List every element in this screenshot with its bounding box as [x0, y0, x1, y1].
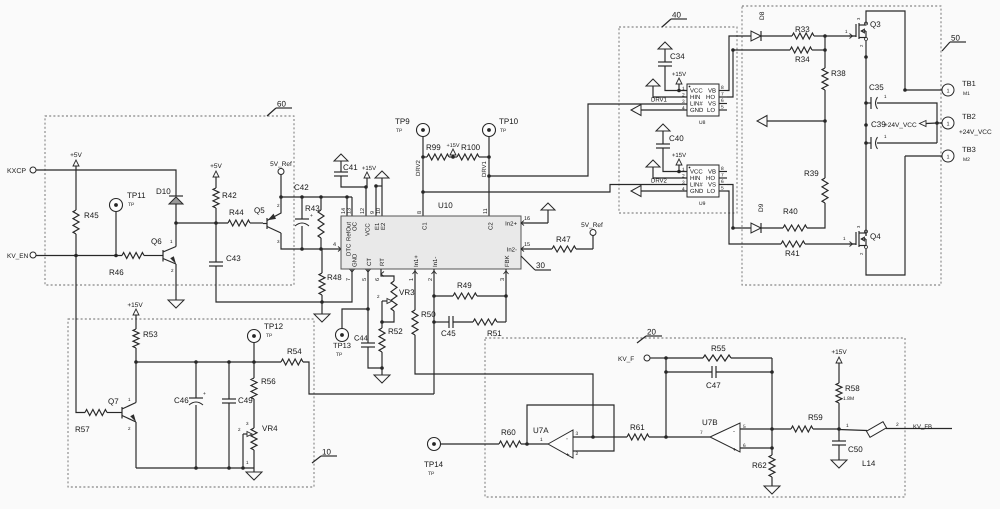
svg-text:C34: C34 — [670, 52, 685, 61]
capacitor C42 (polarized) — [301, 197, 303, 219]
resistor R59 — [772, 428, 791, 430]
wire U7A feedback loop — [527, 405, 614, 451]
svg-text:C43: C43 — [226, 254, 241, 263]
svg-text:+: + — [310, 213, 313, 219]
svg-text:6: 6 — [375, 278, 381, 281]
wire C35 right to TB bus — [877, 103, 937, 143]
resistor R33 — [761, 35, 792, 37]
wire Q3 source down — [865, 41, 867, 103]
node VR4 wiper/ground rail — [241, 466, 245, 470]
VR4 wiper arrow — [243, 433, 247, 435]
svg-text:1: 1 — [946, 89, 949, 95]
svg-text:5: 5 — [362, 278, 368, 281]
svg-text:In1+: In1+ — [413, 255, 420, 267]
svg-text:D9: D9 — [758, 203, 765, 212]
wire U7B pin6 stub — [740, 447, 772, 449]
testpoint TP13 — [336, 329, 349, 342]
testpoint TP10 — [483, 124, 496, 137]
port arrow at U8 pin4 — [631, 105, 641, 116]
node In1-/R49 — [432, 294, 436, 298]
wire feedback left rail — [665, 358, 667, 437]
svg-text:VCC: VCC — [690, 88, 703, 95]
resistor R46 — [121, 255, 123, 257]
varistor VR3 — [391, 281, 397, 311]
resistor R61 — [593, 436, 627, 438]
ground VR4 — [246, 472, 262, 480]
resistor R48 — [321, 249, 323, 273]
wire node to R44 — [176, 222, 228, 224]
wire Q7 emitter down — [135, 422, 137, 468]
svg-text:TP: TP — [266, 333, 273, 339]
wire Q4 source to TB3 — [866, 156, 905, 275]
dashed group box 40 (gate drivers) — [619, 27, 737, 213]
wire TP12 to rail — [253, 343, 255, 363]
svg-text:C44: C44 — [354, 334, 368, 343]
svg-text:30: 30 — [536, 261, 545, 270]
wire Q6 emitter to ground — [175, 264, 177, 300]
svg-text:TP11: TP11 — [127, 191, 146, 200]
node R34 line — [731, 48, 735, 52]
svg-text:U8: U8 — [699, 120, 706, 126]
svg-text:VB: VB — [708, 88, 716, 95]
svg-text:In1-: In1- — [432, 257, 439, 267]
svg-text:7: 7 — [346, 278, 352, 281]
wire C39 left lead — [866, 142, 871, 144]
svg-text:R44: R44 — [229, 208, 244, 217]
svg-text:3: 3 — [500, 278, 506, 281]
wire 5V ref node bus — [281, 196, 352, 198]
svg-text:C42: C42 — [294, 183, 309, 192]
svg-text:E2: E2 — [380, 222, 387, 230]
node C44/R52 ground — [380, 366, 384, 370]
svg-text:HIN: HIN — [690, 94, 700, 101]
resistor R43 — [320, 197, 322, 210]
svg-text:8: 8 — [417, 211, 423, 214]
terminal TB3 — [942, 150, 954, 162]
resistor R100 — [457, 154, 479, 160]
wire KXCP to D10 — [36, 170, 176, 196]
group label 60 — [267, 108, 276, 116]
svg-text:TP: TP — [128, 202, 135, 208]
svg-text:16: 16 — [524, 216, 530, 222]
svg-text:R54: R54 — [287, 347, 302, 356]
resistor R62 — [769, 455, 775, 477]
wire VR3 bottom to node — [382, 311, 394, 322]
svg-text:C40: C40 — [669, 134, 684, 143]
resistor R38 — [822, 68, 828, 90]
inductor bead L14 — [867, 422, 887, 438]
op-amp U7A (mirrored) — [548, 430, 573, 458]
svg-text:7: 7 — [700, 430, 703, 436]
svg-text:+5V: +5V — [210, 163, 222, 170]
node DRV2 top — [421, 155, 425, 159]
capacitor C44 — [361, 342, 375, 344]
svg-text:50: 50 — [951, 34, 960, 43]
resistor R52 — [381, 322, 383, 328]
svg-text:E1: E1 — [374, 222, 381, 230]
svg-text:LO: LO — [707, 188, 715, 195]
VR3 wiper arrow — [382, 300, 387, 302]
svg-text:VR4: VR4 — [262, 424, 278, 433]
svg-text:R51: R51 — [487, 329, 502, 338]
capacitor C50 — [838, 429, 840, 441]
svg-text:U7B: U7B — [702, 418, 718, 427]
wire KV_F to node — [650, 357, 666, 359]
svg-text:Q4: Q4 — [870, 232, 881, 241]
svg-text:R52: R52 — [388, 327, 403, 336]
capacitor C40 — [656, 143, 670, 145]
wire KV_EN bus — [36, 255, 122, 257]
svg-text:R49: R49 — [457, 281, 472, 290]
capacitor C43 — [215, 223, 217, 262]
wire DRV2 to driver U9 — [423, 185, 687, 193]
capacitor C47 — [666, 371, 712, 373]
wire feedback right rail — [771, 358, 773, 448]
ground R48/C43/GND-pin — [321, 302, 323, 314]
svg-text:-: - — [566, 437, 568, 443]
transistor Q7 — [121, 407, 123, 419]
svg-text:10: 10 — [322, 448, 331, 457]
capacitor C46 (polarized) — [195, 362, 197, 398]
node DRV1 branch — [487, 174, 491, 178]
svg-text:TB3: TB3 — [962, 145, 976, 154]
node R42 bottom — [214, 221, 218, 225]
dashed group box 20 (feedback amplifier) — [485, 338, 905, 497]
port arrow mid-bridge — [757, 116, 767, 127]
testpoint TP11 — [110, 199, 123, 212]
svg-text:KV_FB: KV_FB — [913, 424, 932, 431]
svg-text:LO: LO — [707, 107, 715, 114]
node VR3/R52 — [380, 320, 384, 324]
svg-text:VR3: VR3 — [399, 288, 415, 297]
wire U8 HO to R34 line — [727, 50, 790, 97]
wire TB3 stub — [905, 155, 942, 157]
node C39 left — [864, 141, 868, 145]
svg-text:C47: C47 — [706, 381, 721, 390]
svg-text:GND: GND — [690, 188, 704, 195]
wire In1+ pin1 riser — [414, 269, 416, 310]
op-amp U7B (mirrored) — [710, 423, 740, 452]
svg-text:TP: TP — [396, 128, 403, 134]
svg-text:R34: R34 — [795, 55, 810, 64]
testpoint TP14 — [428, 438, 441, 451]
svg-text:D8: D8 — [759, 11, 766, 20]
resistor R56 — [253, 362, 255, 378]
svg-text:TP9: TP9 — [395, 117, 410, 126]
group label 10 — [312, 456, 321, 463]
svg-text:-: - — [733, 429, 735, 435]
svg-text:R57: R57 — [75, 425, 90, 434]
svg-text:2: 2 — [682, 174, 685, 180]
svg-text:KXCP: KXCP — [7, 168, 26, 175]
wire E2 pin10 riser — [381, 186, 383, 216]
svg-text:TP: TP — [336, 352, 343, 358]
wire C43 to ground node — [216, 266, 322, 302]
svg-text:1: 1 — [946, 155, 949, 161]
wire 5V_Ref down to node — [280, 175, 282, 209]
svg-text:+15V: +15V — [447, 143, 460, 149]
IC U10 body — [341, 216, 521, 269]
svg-text:VCC: VCC — [365, 223, 372, 236]
svg-text:20: 20 — [647, 328, 656, 337]
diode D9 — [751, 223, 761, 233]
capacitor C35 — [870, 97, 872, 109]
wire C39 right lead — [877, 142, 937, 144]
svg-text:R42: R42 — [222, 191, 237, 200]
svg-text:R100: R100 — [461, 143, 481, 152]
wire R39 to R40 — [807, 203, 825, 228]
transistor Q6 — [162, 250, 164, 262]
svg-text:U7A: U7A — [533, 426, 549, 435]
wire In2- pin15 to R47 — [521, 248, 552, 250]
resistor R49 — [434, 295, 453, 297]
svg-text:CT: CT — [366, 258, 373, 266]
node In1-/C45 — [432, 320, 436, 324]
gate driver IC U9 body — [687, 165, 719, 197]
svg-text:11: 11 — [483, 208, 489, 214]
svg-text:R99: R99 — [426, 143, 441, 152]
wire 5V_Ref to R47 — [592, 236, 594, 250]
node C41/VCC — [364, 185, 368, 189]
port arrow at U9 pin4 — [631, 186, 641, 197]
resistor R57 — [85, 410, 107, 416]
resistor R51 — [453, 321, 473, 323]
resistor R34 — [790, 47, 812, 53]
svg-text:15: 15 — [524, 242, 530, 248]
wire C44 to ground node — [368, 347, 382, 368]
svg-text:R43: R43 — [305, 204, 320, 213]
resistor R53 — [135, 315, 137, 329]
capacitor C41 — [334, 171, 348, 173]
node 5V_Ref rail — [279, 195, 283, 199]
svg-text:TB1: TB1 — [962, 79, 976, 88]
node R99/R100 junction — [451, 155, 455, 159]
wire R57 to KV_EN node — [76, 256, 85, 413]
wire GND pin7 riser — [322, 269, 352, 302]
svg-text:M1: M1 — [963, 91, 970, 97]
wire TP9 stub — [422, 137, 424, 158]
wire TB2 stub — [937, 122, 942, 124]
svg-text:OC: OC — [352, 221, 359, 231]
power triangle above E1/E2 — [375, 171, 389, 178]
testpoint TP9 — [417, 124, 430, 137]
svg-text:C41: C41 — [343, 163, 358, 172]
wire RefOut pin14 riser — [346, 197, 348, 216]
svg-text:L14: L14 — [862, 459, 876, 468]
svg-text:+: + — [203, 391, 206, 397]
dashed group box 50 (output half-bridge) — [742, 6, 941, 285]
svg-text:In2+: In2+ — [505, 221, 517, 228]
gate driver IC U8 body — [687, 84, 719, 116]
svg-text:M2: M2 — [963, 157, 970, 163]
svg-text:6: 6 — [721, 179, 724, 185]
resistor R39 — [822, 178, 828, 203]
wire C35 left lead — [866, 102, 871, 104]
svg-text:7: 7 — [721, 92, 724, 98]
wire bottom ground rail — [136, 467, 254, 469]
resistor R54 — [281, 359, 303, 365]
svg-text:TP: TP — [500, 128, 507, 134]
svg-text:DTC: DTC — [346, 243, 353, 256]
resistor R58 — [838, 363, 840, 383]
svg-text:TP14: TP14 — [424, 460, 444, 469]
svg-text:TP10: TP10 — [499, 117, 519, 126]
wire U7B pin5 stub — [740, 428, 772, 430]
wire R33/R34 junction to R38 — [824, 36, 826, 68]
power triangle above C34 — [658, 42, 672, 49]
wire Q5 collector to DTC — [281, 233, 341, 249]
svg-text:+5V: +5V — [70, 152, 82, 159]
svg-text:1: 1 — [682, 86, 685, 92]
svg-text:LIN#: LIN# — [690, 101, 703, 108]
wire CT pin5 riser — [367, 269, 369, 343]
node TP12/R56 — [252, 360, 256, 364]
wire DRV2 riser to pin8 — [422, 157, 424, 216]
resistor R60 — [441, 443, 500, 445]
svg-text:LIN#: LIN# — [690, 182, 703, 189]
node R38 bottom — [823, 119, 827, 123]
svg-text:2: 2 — [428, 278, 434, 281]
svg-text:TP: TP — [428, 471, 435, 477]
svg-text:3: 3 — [682, 180, 685, 186]
node TB1/C35 — [903, 88, 907, 92]
svg-text:R59: R59 — [808, 413, 823, 422]
power triangle above C41 — [334, 154, 348, 161]
wire TP11 to KV_EN — [115, 212, 117, 256]
svg-text:7: 7 — [721, 173, 724, 179]
wire +15V arrow stem — [366, 178, 368, 187]
svg-text:DRV2: DRV2 — [415, 159, 422, 176]
wire TB1 stub — [905, 89, 942, 91]
diode D8 — [751, 31, 761, 41]
wire VR3 wiper down — [381, 301, 383, 322]
svg-text:4: 4 — [682, 106, 685, 112]
capacitor C39 — [870, 137, 872, 149]
node U7A pin3 — [591, 435, 595, 439]
svg-text:C50: C50 — [848, 445, 863, 454]
wire TP13 to CT — [342, 309, 368, 329]
node R59/R58/C50/L14 — [837, 427, 841, 431]
wire VCC pin12 riser — [365, 187, 367, 216]
svg-text:R46: R46 — [109, 268, 124, 277]
transistor Q3 (MOSFET) — [853, 35, 856, 37]
svg-text:R47: R47 — [556, 235, 571, 244]
svg-text:R62: R62 — [752, 461, 767, 470]
svg-text:VB: VB — [708, 169, 716, 176]
U9 right pin stubs — [719, 171, 727, 173]
U8 right pin stubs — [719, 90, 727, 92]
wire R50 to U7A input — [415, 335, 593, 437]
node C35 left — [864, 101, 868, 105]
svg-text:4: 4 — [682, 187, 685, 193]
ground R62 — [764, 486, 780, 494]
svg-text:RefOut: RefOut — [346, 222, 353, 241]
svg-text:C46: C46 — [174, 396, 189, 405]
wire In1- long feedback to R54 — [303, 362, 434, 394]
svg-text:C1: C1 — [422, 222, 429, 230]
svg-text:8: 8 — [721, 85, 724, 91]
group label 50 — [942, 42, 950, 51]
resistor R44 — [228, 220, 250, 226]
node R33/gate — [823, 34, 827, 38]
svg-text:R61: R61 — [630, 423, 645, 432]
terminal TB2 — [942, 117, 954, 129]
svg-text:1.8M: 1.8M — [843, 396, 854, 402]
svg-text:12: 12 — [360, 208, 366, 214]
svg-text:13: 13 — [347, 208, 353, 214]
svg-text:C2: C2 — [488, 222, 495, 230]
wire ref rail — [136, 361, 281, 363]
resistor R55 — [666, 357, 703, 359]
wire U7B output stub — [666, 436, 710, 438]
node FBK/R49 — [504, 294, 508, 298]
svg-text:R55: R55 — [711, 344, 726, 353]
node R48 bottom / ground — [320, 300, 324, 304]
resistor R40 — [761, 227, 783, 229]
svg-text:VCC: VCC — [690, 169, 703, 176]
svg-text:2: 2 — [682, 93, 685, 99]
svg-text:2: 2 — [576, 451, 579, 457]
wire OC pin13 riser — [351, 197, 353, 216]
node U7A output — [525, 442, 529, 446]
svg-text:R45: R45 — [84, 211, 99, 220]
node +24V tap — [864, 123, 868, 127]
svg-text:5V_Ref: 5V_Ref — [270, 161, 292, 168]
resistor R50 — [412, 310, 418, 335]
svg-text:HO: HO — [706, 94, 715, 101]
wire U9 VS to D9 line — [727, 185, 751, 229]
svg-text:TP13: TP13 — [333, 341, 351, 350]
wire VR4 bottom — [253, 450, 255, 472]
resistor R45 — [75, 166, 77, 210]
wire Q7 collector — [135, 362, 137, 403]
wire Q3 drain to TB1 — [866, 11, 905, 90]
node Q3 source — [864, 55, 868, 59]
svg-text:3: 3 — [576, 431, 579, 437]
svg-text:5: 5 — [721, 186, 724, 192]
svg-text:R60: R60 — [501, 428, 516, 437]
wire U7A pin2 stub — [573, 450, 580, 452]
svg-text:R58: R58 — [845, 384, 860, 393]
capacitor C34 — [658, 61, 672, 63]
terminal TB1 — [942, 84, 954, 96]
wire Q4 drain up — [865, 232, 867, 236]
wire DRV1 riser to pin11 — [488, 157, 490, 216]
pointer label 30 at FBK corner — [521, 256, 535, 270]
transistor Q5 (PNP) — [266, 218, 268, 229]
svg-text:R39: R39 — [804, 169, 819, 178]
svg-text:+24V_VCC: +24V_VCC — [884, 122, 917, 129]
svg-text:U10: U10 — [438, 201, 453, 210]
wire TP10 stub — [488, 137, 490, 158]
svg-text:10: 10 — [376, 208, 382, 214]
node DRV1 top — [487, 155, 491, 159]
svg-text:C45: C45 — [441, 329, 456, 338]
svg-text:+15V: +15V — [672, 71, 686, 78]
wire mid rail down — [865, 103, 867, 236]
svg-text:+15V: +15V — [831, 349, 847, 356]
resistor R42 — [215, 177, 217, 188]
node R53/ref rail — [134, 360, 138, 364]
svg-text:Q7: Q7 — [108, 397, 119, 406]
transistor Q4 (MOSFET) — [853, 243, 856, 245]
node D10/R44/Q6 — [174, 221, 178, 225]
svg-text:FBK: FBK — [504, 255, 511, 267]
svg-text:60: 60 — [277, 100, 286, 109]
resistor R41 — [781, 241, 805, 247]
dashed group box 10 (reference filter) — [68, 319, 314, 487]
wire U7A pin3 stub — [573, 436, 593, 438]
